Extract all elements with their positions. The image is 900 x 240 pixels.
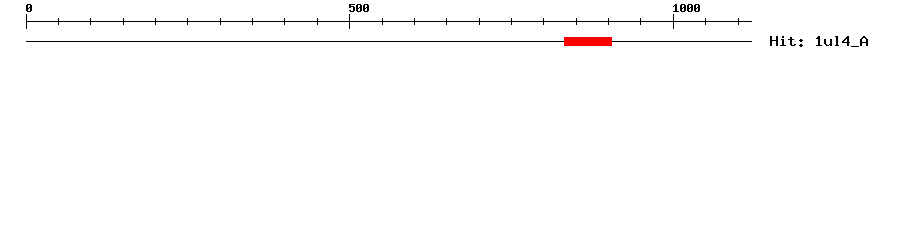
major tick 500 [349, 14, 350, 29]
query sequence line [26, 41, 752, 42]
major tick 0 [26, 14, 27, 29]
minor tick 450 [317, 18, 318, 25]
major tick 1000 [673, 14, 674, 29]
minor tick 900 [608, 18, 609, 25]
minor tick 200 [155, 18, 156, 25]
minor tick 1100 [738, 18, 739, 25]
hit name label Hit: 1ul4_A [770, 36, 868, 47]
minor tick 1050 [705, 18, 706, 25]
background [0, 0, 900, 60]
minor tick 550 [382, 18, 383, 25]
minor tick 250 [187, 18, 188, 25]
ruler axis line [26, 21, 752, 22]
ruler label 0 [26, 4, 32, 12]
minor tick 850 [576, 18, 577, 25]
minor tick 950 [640, 18, 641, 25]
red hit match box [564, 37, 612, 46]
minor tick 700 [479, 18, 480, 25]
minor tick 150 [123, 18, 124, 25]
minor tick 800 [543, 18, 544, 25]
minor tick 50 [58, 18, 59, 25]
ruler label 1000 [673, 4, 700, 12]
minor tick 300 [220, 18, 221, 25]
minor tick 750 [511, 18, 512, 25]
minor tick 650 [446, 18, 447, 25]
minor tick 350 [252, 18, 253, 25]
minor tick 600 [414, 18, 415, 25]
minor tick 400 [284, 18, 285, 25]
minor tick 100 [90, 18, 91, 25]
ruler label 500 [349, 4, 369, 12]
